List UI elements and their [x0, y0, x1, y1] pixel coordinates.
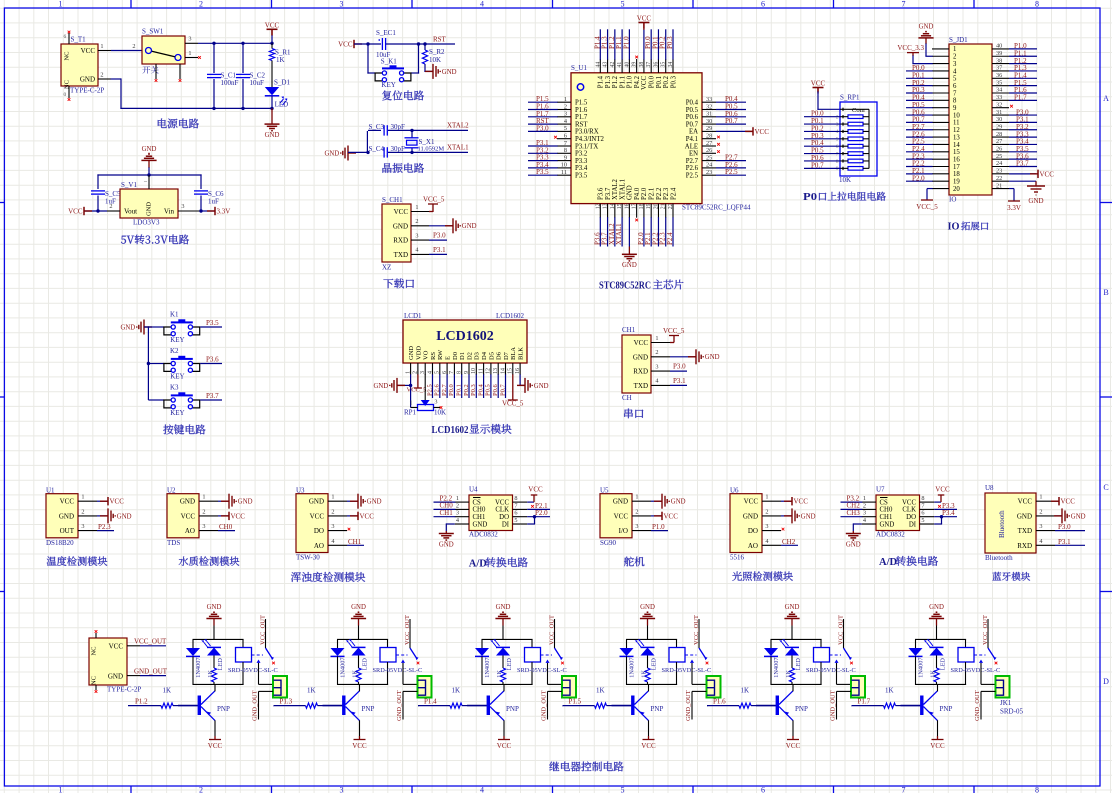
- svg-text:17: 17: [953, 164, 960, 171]
- svg-text:1: 1: [188, 50, 191, 57]
- resistor 1K input relay unit 5: [739, 703, 751, 708]
- svg-text:5: 5: [435, 371, 441, 374]
- svg-text:GND: GND: [120, 324, 135, 331]
- ground download: [445, 225, 453, 227]
- junction R2 top: [423, 42, 426, 45]
- diode 1N4007 relay unit 4: [620, 648, 634, 656]
- JD1 left pin lead 16: [932, 158, 949, 160]
- svg-text:P3.5: P3.5: [536, 168, 549, 176]
- svg-text:2: 2: [132, 43, 135, 50]
- wire net XTAL1 mcu-bottom: [621, 217, 623, 246]
- svg-text:S_U1: S_U1: [571, 64, 587, 72]
- title 水质检测模块: [179, 556, 240, 565]
- svg-text:1N4007: 1N4007: [773, 658, 780, 678]
- RP1 resistor element 8: [848, 167, 863, 171]
- svg-text:P1.0: P1.0: [627, 75, 634, 88]
- wire lcd gnd pin1: [410, 374, 412, 386]
- wire GND down-right: [111, 78, 122, 80]
- svg-text:1K: 1K: [276, 56, 285, 64]
- svg-text:TXD: TXD: [634, 382, 648, 390]
- terminal JK green relay unit 2: [418, 676, 432, 698]
- wire net P3.3 left: [528, 160, 558, 162]
- resistor S_R2: [424, 43, 426, 50]
- lcd pin lead 10: [475, 363, 477, 375]
- svg-text:P0.2: P0.2: [463, 384, 470, 396]
- RP1 resistor element 1: [848, 115, 863, 119]
- svg-text:GND: GND: [393, 222, 408, 230]
- svg-text:1K: 1K: [207, 670, 214, 678]
- mcu right pin P2.6 lead: [702, 167, 716, 169]
- connector S_CH1 body: [382, 204, 411, 262]
- switch bottom stub a: [155, 64, 157, 79]
- red x S_T1 bottom: [68, 98, 71, 101]
- svg-text:TXD: TXD: [1018, 527, 1032, 535]
- title 复位电路: [382, 91, 424, 101]
- red x adc U4 clk: [531, 505, 534, 508]
- mcu right pin ALE lead: [702, 145, 716, 147]
- TYPE-C out top stub: [95, 633, 97, 638]
- capacitor S_C6: [194, 190, 208, 192]
- svg-text:P1.4: P1.4: [598, 75, 605, 88]
- wire net P0.6 jd-left: [906, 114, 933, 116]
- mcu left pin P1.7 lead: [557, 116, 571, 118]
- wire relay unit 6 left branch bottom: [915, 656, 917, 685]
- svg-text:3.3V: 3.3V: [1007, 204, 1021, 212]
- svg-text:VCC: VCC: [110, 498, 125, 506]
- gnd stem power: [271, 108, 273, 124]
- lcd pin lead 6: [446, 363, 448, 375]
- svg-text:10uF: 10uF: [250, 79, 265, 87]
- svg-text:GND: GND: [1028, 197, 1043, 205]
- svg-text:LED: LED: [939, 658, 946, 671]
- svg-text:P3.4: P3.4: [575, 165, 588, 172]
- svg-text:D6: D6: [496, 351, 503, 360]
- JD1 right pin lead 21: [992, 188, 1009, 190]
- wire net P1.2 jd-right: [1009, 63, 1037, 65]
- wire net P0.6 rp1: [804, 160, 841, 162]
- red x mcu bottom P4.0: [635, 219, 638, 222]
- wire adc U4 clk net: [527, 508, 550, 510]
- svg-text:15: 15: [953, 149, 960, 156]
- svg-text:5: 5: [921, 517, 924, 524]
- wire Vin to 3.3V: [201, 210, 215, 212]
- mcu bottom pin XTAL1 lead: [621, 204, 623, 218]
- svg-text:1: 1: [405, 371, 411, 374]
- module U5 body: [600, 494, 632, 538]
- svg-text:3: 3: [765, 523, 768, 530]
- ground module U2: [221, 500, 229, 502]
- wire relay inter 3: [562, 705, 565, 707]
- wire lcd net P0.4: [483, 374, 485, 398]
- svg-text:P0.7: P0.7: [725, 117, 738, 125]
- junction xtal left bottom: [366, 151, 369, 154]
- wire relay unit 3 left branch bottom: [481, 656, 483, 685]
- svg-text:2: 2: [1039, 508, 1042, 515]
- svg-text:BLA: BLA: [510, 347, 517, 360]
- S_CH1 pin 3: [411, 239, 429, 241]
- svg-text:5516: 5516: [730, 554, 745, 562]
- svg-text:VCC_5: VCC_5: [916, 203, 938, 211]
- wire relay unit 3 top rail: [482, 638, 533, 640]
- svg-text:4: 4: [836, 129, 839, 135]
- wire adc U7 do net: [934, 516, 957, 518]
- wire VCC to switch: [111, 50, 142, 52]
- ground relay unit 2 symbol: [351, 618, 366, 620]
- svg-text:CH0: CH0: [880, 507, 893, 514]
- U8 pin 1 lead: [1036, 500, 1055, 502]
- JD1 left pin lead 12: [932, 129, 949, 131]
- wire adc U4 do net: [527, 516, 550, 518]
- svg-text:VCC: VCC: [265, 21, 280, 29]
- svg-text:GND: GND: [117, 513, 132, 520]
- svg-text:PNP: PNP: [362, 705, 375, 713]
- svg-text:S_V1: S_V1: [121, 181, 137, 189]
- wire relay inter 1: [273, 705, 276, 707]
- svg-text:P4.0: P4.0: [634, 187, 641, 200]
- wire gnd to c4 row: [348, 151, 368, 153]
- mcu right pin EN lead: [702, 152, 716, 154]
- lcd pin lead 15: [512, 363, 514, 375]
- svg-text:SRD-05VDC-SL-C: SRD-05VDC-SL-C: [373, 667, 423, 674]
- wire relay unit 3 base: [467, 705, 487, 707]
- junction D1 bottom: [270, 107, 273, 110]
- svg-text:P3.6: P3.6: [206, 356, 219, 364]
- wire net P0.1 mcu-top: [657, 29, 659, 59]
- wire lcd net P0.7: [505, 374, 507, 398]
- wire net P2.4 mcu-bottom: [672, 217, 674, 246]
- wire net P0.2 rp1: [804, 130, 841, 132]
- adc U4 body: [469, 495, 513, 531]
- resistor 1K relay unit 6: [934, 668, 939, 682]
- mcu top pin P4.2 lead: [636, 59, 638, 73]
- svg-text:S_SW1: S_SW1: [142, 28, 164, 36]
- ground relay unit 1 symbol: [206, 618, 221, 620]
- wire relay unit 2 left branch top: [337, 639, 339, 648]
- ground LDO symbol: [141, 159, 156, 161]
- LED relay unit 4: [641, 646, 655, 648]
- svg-text:P1.3: P1.3: [605, 75, 612, 88]
- wire net P2.2 mcu-bottom: [657, 217, 659, 246]
- wire relay unit 1 emitter: [214, 720, 216, 736]
- svg-text:P3.1: P3.1: [673, 377, 686, 385]
- wire p3.1 serial: [670, 384, 687, 386]
- wire net P1.4 jd-right: [1009, 77, 1037, 79]
- JD1 right pin lead 34: [992, 92, 1009, 94]
- svg-text:VCC: VCC: [1061, 498, 1076, 506]
- wire VCC to R1: [271, 43, 273, 48]
- JD1 left pin lead 17: [932, 166, 949, 168]
- svg-text:P0.6: P0.6: [492, 384, 499, 396]
- wire module U6 gnd: [781, 515, 792, 517]
- svg-text:10: 10: [953, 112, 960, 119]
- svg-text:7: 7: [449, 371, 455, 374]
- lcd pin lead 9: [468, 363, 470, 375]
- RP1 resistor element 7: [848, 159, 863, 163]
- svg-text:P0.7: P0.7: [811, 161, 824, 169]
- svg-text:8: 8: [836, 159, 839, 165]
- svg-text:3: 3: [181, 203, 184, 210]
- module U3 body: [296, 494, 328, 553]
- svg-text:CLK: CLK: [902, 507, 916, 514]
- svg-text:2: 2: [765, 508, 768, 515]
- crystal S_X1: [407, 140, 418, 145]
- svg-text:GND: GND: [324, 150, 339, 157]
- svg-text:P1.7: P1.7: [1014, 94, 1027, 102]
- junction VCC node: [270, 42, 273, 45]
- junction reset right: [417, 42, 420, 45]
- resistor 1K relay unit 2: [356, 668, 361, 682]
- svg-text:4: 4: [480, 786, 484, 794]
- adc U4 left pin 4 lead: [455, 523, 469, 525]
- RP1 pin lead 8: [840, 160, 848, 162]
- wire relay unit 4 left branch bottom: [626, 656, 628, 685]
- power port VCC relay unit 3: [503, 736, 505, 740]
- adc U7 left pin 3 lead: [862, 516, 876, 518]
- power port VCC_5 lcd pin15: [512, 374, 514, 400]
- power port VCC_5 JD1: [921, 199, 933, 201]
- wire net P1.0 jd-right: [1009, 48, 1037, 50]
- terminal JK green relay unit 6: [996, 676, 1010, 698]
- wire GND_OUT: [140, 675, 166, 677]
- svg-text:VCC: VCC: [794, 498, 809, 506]
- svg-text:VCC_OUT: VCC_OUT: [259, 615, 266, 645]
- svg-text:11: 11: [478, 368, 484, 374]
- svg-text:5: 5: [621, 0, 625, 9]
- svg-text:PNP: PNP: [506, 705, 519, 713]
- mcu left pin P3.4 lead: [557, 167, 571, 169]
- LED relay unit 5: [785, 646, 799, 648]
- red x pot pin3: [440, 406, 443, 409]
- svg-text:A/D: A/D: [879, 557, 898, 568]
- svg-text:1K: 1K: [307, 687, 316, 695]
- wire relay unit 2 base: [323, 705, 343, 707]
- svg-text:CH1: CH1: [622, 326, 636, 334]
- svg-text:P1.5: P1.5: [575, 100, 588, 107]
- RP1 pin lead 7: [840, 153, 848, 155]
- S_T1 pin 2 GND: [98, 78, 111, 80]
- wire net P1.4 mcu-top: [599, 29, 601, 59]
- wire net P0.6 mcu-right: [716, 116, 746, 118]
- svg-text:P0.0: P0.0: [648, 75, 655, 88]
- svg-text:2: 2: [456, 502, 459, 509]
- connector CH1 body: [622, 335, 651, 393]
- relay NC contact arrow relay unit 2: [401, 660, 405, 663]
- title 下载口: [383, 279, 414, 289]
- svg-text:TYPE-C-2P: TYPE-C-2P: [70, 87, 104, 95]
- svg-text:GND: GND: [80, 76, 95, 84]
- svg-text:VCC: VCC: [81, 47, 96, 55]
- svg-text:P2.2: P2.2: [656, 187, 663, 200]
- svg-text:VCC_OUT: VCC_OUT: [134, 638, 167, 646]
- svg-text:P3.0: P3.0: [1058, 523, 1071, 531]
- JD1 right pin lead 32: [992, 107, 1009, 109]
- svg-text:PNP: PNP: [795, 705, 808, 713]
- svg-text:P2.0: P2.0: [535, 509, 548, 517]
- svg-text:DO: DO: [314, 527, 324, 535]
- svg-text:A/D: A/D: [469, 558, 488, 569]
- wire left cap drop: [97, 174, 99, 189]
- resistor 1K input relay unit 1: [161, 703, 173, 708]
- power port VCC_5 lcd pin2: [417, 374, 419, 388]
- wire relay unit 2 gnd_out: [403, 690, 418, 692]
- svg-text:P2.4: P2.4: [666, 232, 674, 245]
- svg-text:8: 8: [1035, 0, 1039, 9]
- relay blade relay unit 3: [555, 648, 562, 658]
- junction lcd gnd: [409, 384, 412, 387]
- JD1 right pin lead 27: [992, 143, 1009, 145]
- svg-text:U8: U8: [985, 484, 994, 492]
- svg-text:3: 3: [415, 232, 418, 239]
- key switch K3: [171, 394, 193, 396]
- relay NC contact arrow relay unit 5: [835, 660, 839, 663]
- wire net P2.7 mcu-right: [716, 160, 746, 162]
- wire VCC to Vout: [84, 210, 107, 212]
- svg-text:P1.7: P1.7: [575, 114, 588, 121]
- relay coil box relay unit 5: [820, 639, 822, 647]
- wire relay unit 3 left branch top: [481, 639, 483, 648]
- lcd pin lead 8: [461, 363, 463, 375]
- wire relay unit 2 led to res: [358, 656, 360, 669]
- wire relay unit 3 out link: [562, 705, 565, 707]
- svg-text:9: 9: [953, 105, 957, 112]
- wire relay unit 4 left branch top: [626, 639, 628, 648]
- wire net P0.5 jd-left: [906, 107, 933, 109]
- svg-text:1K: 1K: [351, 670, 358, 678]
- ground lcd right: [517, 384, 525, 386]
- JD1 left pin lead 4: [932, 70, 949, 72]
- adc U4 right pin 7 lead: [513, 508, 528, 510]
- red x relay NO relay unit 2: [417, 662, 420, 665]
- relay NC wire down relay unit 1: [258, 663, 260, 685]
- relay NC contact arrow relay unit 6: [979, 660, 983, 663]
- svg-text:P2.3: P2.3: [98, 523, 111, 531]
- ground module U5: [654, 500, 662, 502]
- wire lcd net P0.5: [490, 374, 492, 398]
- wire jd pin23 vcc: [1009, 173, 1036, 175]
- reset key button: [382, 67, 404, 69]
- wire net P2.2 jd-left: [906, 166, 933, 168]
- svg-text:TYPE-C-2P: TYPE-C-2P: [107, 686, 141, 694]
- svg-text:P1.0: P1.0: [652, 523, 665, 531]
- svg-text:DO: DO: [906, 514, 916, 521]
- svg-text:U7: U7: [876, 486, 885, 494]
- svg-text:IO: IO: [948, 221, 960, 233]
- svg-text:VCC_5: VCC_5: [663, 327, 685, 335]
- svg-text:P0.5: P0.5: [485, 384, 492, 396]
- resistor 1K input relay unit 4: [595, 703, 607, 708]
- wire K2 left: [148, 363, 164, 365]
- module U1 body: [46, 494, 78, 538]
- wire relay unit 5 left branch bottom: [770, 656, 772, 685]
- wire net P0.1 jd-left: [906, 77, 933, 79]
- svg-text:KEY: KEY: [170, 373, 184, 381]
- relay dashed link relay unit 4: [685, 654, 697, 656]
- wire relay unit 6 gnd_out: [981, 690, 996, 692]
- RP1 pin lead 4: [840, 130, 848, 132]
- wire adc U4 CH1: [434, 516, 456, 518]
- svg-text:GND: GND: [801, 513, 816, 520]
- terminal JK green relay unit 1: [273, 676, 287, 698]
- RP1 resistor element 5: [848, 144, 863, 148]
- svg-text:1K: 1K: [929, 670, 936, 678]
- red x adc U7 clk: [938, 505, 941, 508]
- S_CH1 pin 4: [411, 253, 429, 255]
- TYPE-C out pin VCC lead: [127, 645, 140, 647]
- svg-text:GND: GND: [142, 146, 157, 153]
- mcu right pin P0.7 lead: [702, 123, 716, 125]
- svg-text:VCC: VCC: [495, 499, 509, 506]
- svg-text:3: 3: [863, 510, 866, 517]
- mcu top pin P1.1 lead: [621, 59, 623, 73]
- svg-text:VCC: VCC: [360, 512, 375, 520]
- capacitor S_C5: [91, 190, 105, 192]
- mcu top pin P1.4 lead: [599, 59, 601, 73]
- wire relay unit 1 bottom rail: [193, 683, 244, 685]
- relay NC wire down relay unit 3: [547, 663, 549, 685]
- svg-text:6: 6: [514, 510, 517, 517]
- JD1 right pin lead 30: [992, 121, 1009, 123]
- capacitor S_EC1: [381, 38, 383, 50]
- svg-text:STC89C52RC: STC89C52RC: [599, 280, 651, 292]
- wire relay unit 2 res to rail: [358, 682, 360, 685]
- mcu top pin P0.2 lead: [665, 59, 667, 73]
- svg-text:CS: CS: [880, 499, 889, 506]
- wire p3.0 download: [429, 239, 447, 241]
- regulator pin 2: [107, 210, 120, 212]
- wire relay unit 5 gnd stem: [791, 619, 793, 626]
- relay common wire relay unit 4: [698, 619, 700, 648]
- svg-text:ADC0832: ADC0832: [469, 531, 498, 539]
- JD1 left pin lead 11: [932, 121, 949, 123]
- svg-text:3: 3: [953, 61, 957, 68]
- wire relay unit 6 input: [852, 705, 884, 707]
- title 按键电路: [163, 424, 205, 434]
- junction xtal1 node: [410, 151, 413, 154]
- JD1 left pin lead 15: [932, 151, 949, 153]
- module U1 pin 1 lead: [78, 500, 97, 502]
- mcu top pin P0.3 lead: [672, 59, 674, 73]
- svg-text:18: 18: [953, 171, 960, 178]
- terminal JK green relay unit 4: [707, 676, 721, 698]
- svg-text:S_CH1: S_CH1: [382, 196, 403, 204]
- svg-text:6: 6: [64, 34, 67, 40]
- wire relay unit 4 base: [612, 705, 632, 707]
- svg-text:3: 3: [340, 786, 344, 794]
- svg-text:GND: GND: [59, 512, 74, 520]
- wire net P3.5 left: [528, 174, 558, 176]
- svg-text:D0: D0: [452, 352, 459, 360]
- svg-text:SG90: SG90: [600, 539, 616, 547]
- svg-text:GND: GND: [496, 604, 511, 611]
- svg-text:P1.4: P1.4: [424, 698, 437, 706]
- red x relay NO relay unit 6: [995, 662, 998, 665]
- svg-text:Bluetooth: Bluetooth: [985, 554, 1013, 562]
- svg-text:P3.4: P3.4: [942, 509, 955, 517]
- wire relay unit 6 base: [901, 705, 921, 707]
- svg-text:E: E: [445, 356, 452, 360]
- svg-text:3.3V: 3.3V: [217, 207, 231, 215]
- wire net P0.0 rp1: [804, 116, 841, 118]
- junction C2 bottom: [241, 107, 244, 110]
- wire adc U4 do-di loop: [534, 517, 536, 524]
- svg-text:S_C4: S_C4: [369, 145, 385, 153]
- svg-text:GND_OUT: GND_OUT: [396, 690, 403, 721]
- mcu left pin P3.0/RX lead: [557, 130, 571, 132]
- svg-text:3: 3: [655, 363, 658, 370]
- power port VCC module U5: [654, 515, 662, 517]
- wire gnd serial: [670, 356, 696, 358]
- svg-text:3: 3: [331, 523, 334, 530]
